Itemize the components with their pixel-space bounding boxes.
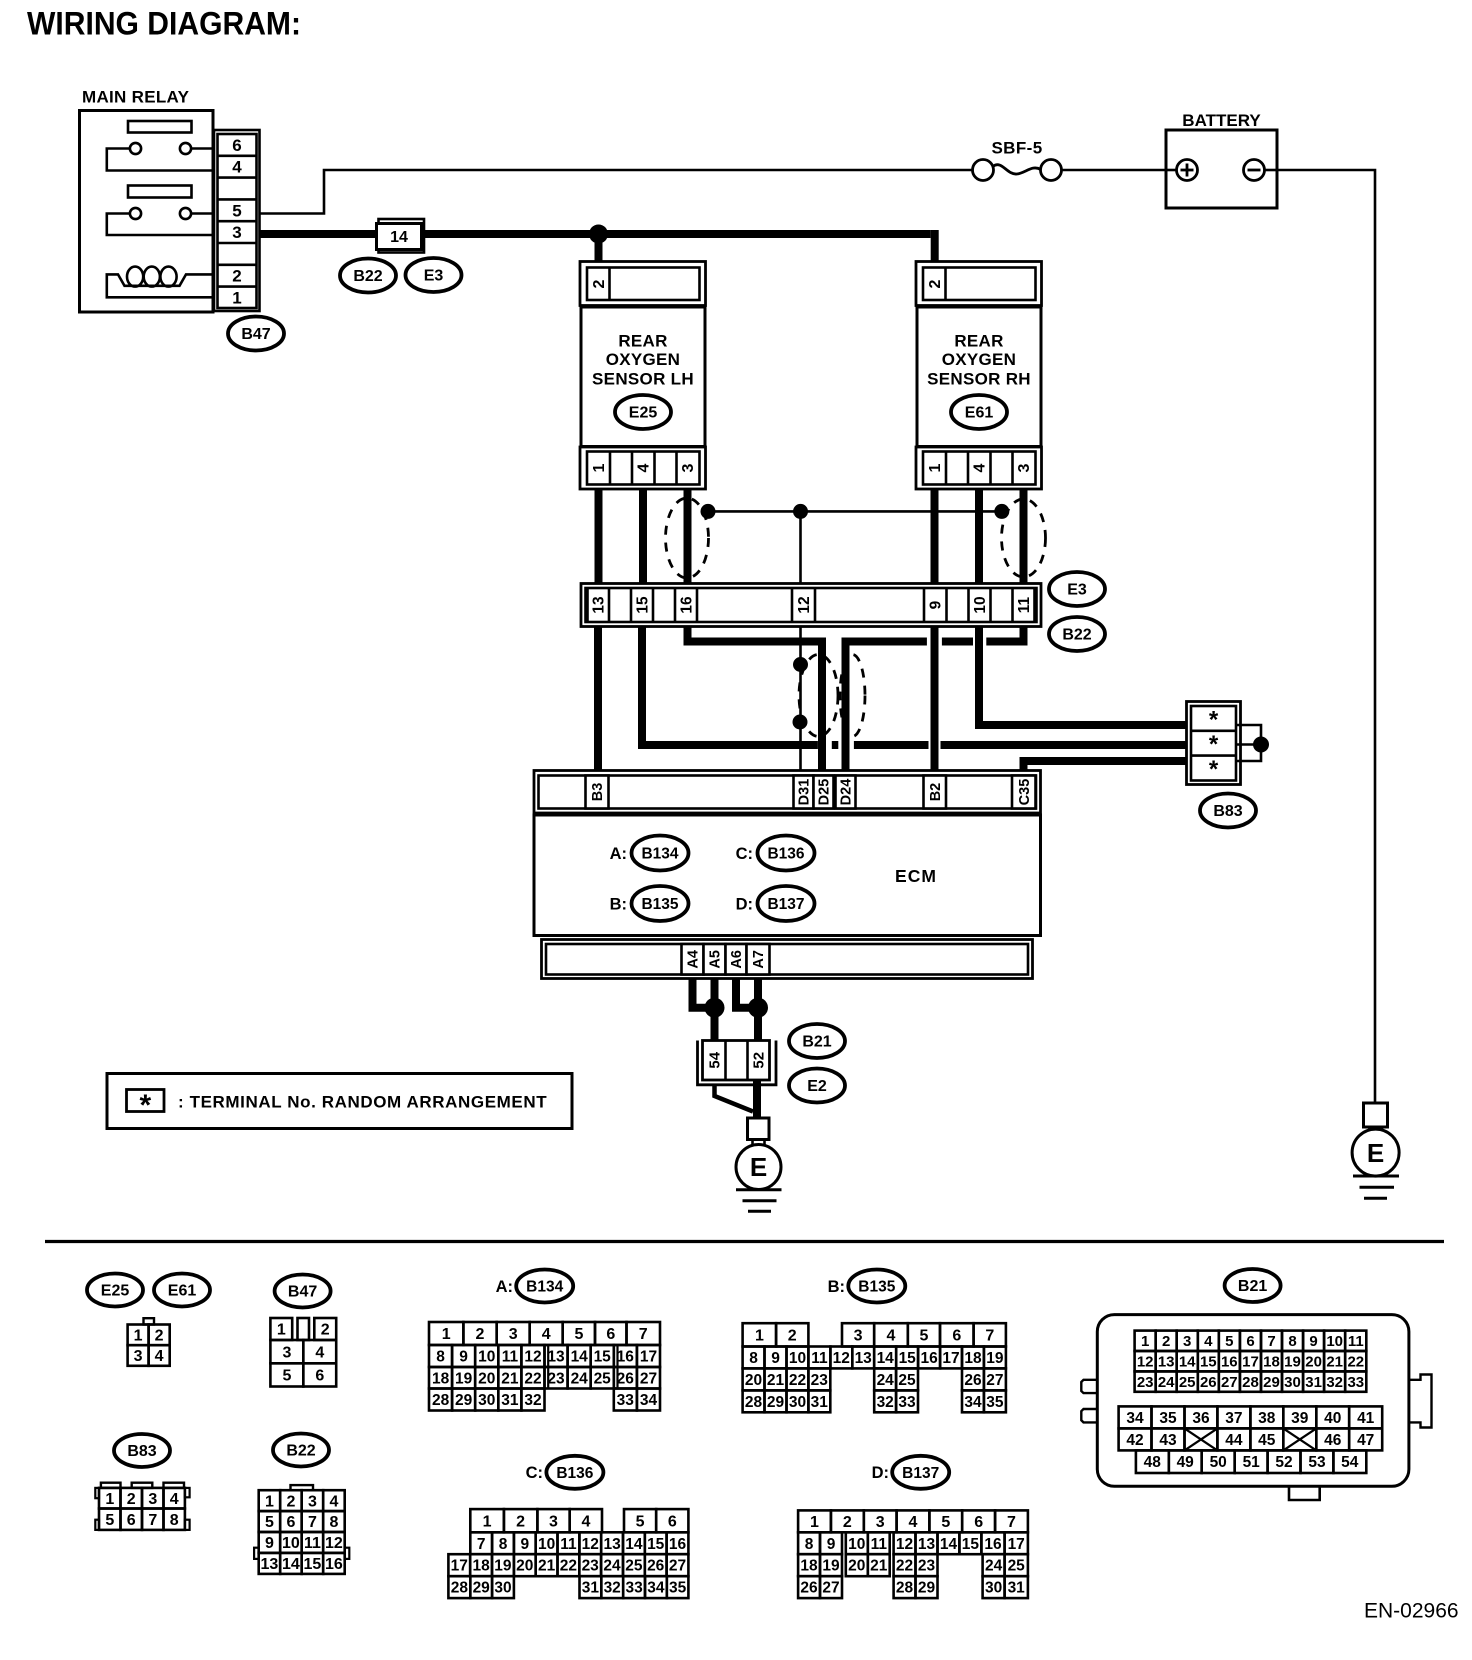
- svg-text:19: 19: [822, 1558, 840, 1575]
- svg-text:38: 38: [1258, 1410, 1276, 1427]
- main relay box: [80, 111, 214, 313]
- svg-text:27: 27: [986, 1372, 1003, 1389]
- svg-text:12: 12: [325, 1535, 343, 1552]
- svg-text:3: 3: [1016, 463, 1033, 472]
- svg-text:19: 19: [1284, 1354, 1301, 1371]
- svg-text:SBF-5: SBF-5: [991, 139, 1042, 158]
- svg-text:28: 28: [432, 1392, 450, 1409]
- svg-text:34: 34: [1126, 1410, 1144, 1427]
- svg-text:4: 4: [155, 1348, 164, 1365]
- svg-text:25: 25: [898, 1372, 916, 1389]
- svg-text:18: 18: [800, 1558, 818, 1575]
- oval E3 (near 14): [406, 258, 462, 292]
- svg-text:8: 8: [805, 1536, 814, 1553]
- svg-text:35: 35: [669, 1580, 687, 1597]
- svg-text:3: 3: [680, 463, 697, 472]
- ground E (right): [1352, 1127, 1399, 1198]
- svg-text:25: 25: [1008, 1558, 1026, 1575]
- svg-text:31: 31: [582, 1580, 600, 1597]
- ECM bottom connector strip (A4,A5,A6,A7): [542, 940, 1033, 979]
- svg-text:3: 3: [282, 1344, 291, 1361]
- svg-text:B83: B83: [1213, 803, 1242, 820]
- wire: sensor LH pin 1 to connector pin 13: [595, 489, 603, 584]
- svg-text:B2: B2: [928, 783, 944, 802]
- svg-text:2: 2: [516, 1513, 525, 1530]
- svg-text:14: 14: [1179, 1354, 1196, 1371]
- wire: sensor RH pin 1 to connector pin 9: [931, 489, 939, 584]
- svg-text:28: 28: [896, 1580, 914, 1597]
- svg-text:8: 8: [499, 1536, 508, 1553]
- svg-text:E25: E25: [101, 1283, 130, 1300]
- ECM connector ovals A:B134 C:B136 B:B135 D:B137: [610, 836, 689, 871]
- svg-text:30: 30: [985, 1580, 1002, 1597]
- svg-text:29: 29: [1263, 1374, 1280, 1391]
- svg-text:24: 24: [877, 1372, 895, 1389]
- svg-text:31: 31: [811, 1394, 829, 1411]
- svg-text:14: 14: [625, 1536, 643, 1553]
- svg-text:2: 2: [1162, 1333, 1170, 1350]
- svg-text:E: E: [1367, 1138, 1384, 1168]
- svg-text:11: 11: [871, 1536, 888, 1553]
- svg-text:54: 54: [1341, 1454, 1359, 1471]
- svg-text:1: 1: [232, 288, 241, 307]
- svg-text:1: 1: [927, 463, 944, 472]
- connector B21 pin grid 48-54: [1136, 1450, 1366, 1473]
- svg-text:2: 2: [127, 1491, 136, 1508]
- svg-text:1: 1: [442, 1326, 451, 1343]
- svg-text:B135: B135: [858, 1279, 895, 1296]
- wire: ECM C35 to B83 bottom pin: [1024, 761, 1192, 771]
- svg-text:7: 7: [1007, 1514, 1016, 1531]
- svg-text:6: 6: [286, 1514, 295, 1531]
- svg-text:2: 2: [788, 1328, 797, 1345]
- svg-text:D31: D31: [797, 779, 813, 806]
- svg-text:4: 4: [542, 1326, 551, 1343]
- svg-text:D25: D25: [817, 779, 833, 806]
- connector B137 pinout: [798, 1510, 1028, 1598]
- svg-text:B47: B47: [241, 326, 270, 343]
- wire: B83 pins commoned (right bracket with node): [1236, 725, 1269, 761]
- svg-text:B22: B22: [1062, 627, 1091, 644]
- svg-text:C:: C:: [526, 1464, 543, 1482]
- svg-text:3: 3: [308, 1493, 317, 1510]
- svg-text:8: 8: [749, 1350, 758, 1367]
- svg-text:*: *: [1209, 731, 1219, 758]
- svg-text:2: 2: [286, 1493, 295, 1510]
- svg-text:14: 14: [940, 1536, 958, 1553]
- svg-text:A:: A:: [610, 845, 627, 863]
- svg-text:19: 19: [494, 1558, 512, 1575]
- svg-text:23: 23: [582, 1558, 600, 1575]
- svg-text:11: 11: [560, 1536, 577, 1553]
- label A: and oval B134 (pinout): [496, 1270, 574, 1303]
- svg-text:5: 5: [919, 1328, 928, 1345]
- wire: sensor RH pin 4 to connector pin 10: [975, 489, 983, 584]
- svg-text:B21: B21: [1238, 1278, 1267, 1295]
- svg-text:30: 30: [478, 1392, 495, 1409]
- svg-text:D:: D:: [736, 895, 753, 913]
- svg-text:26: 26: [800, 1580, 818, 1597]
- svg-text:13: 13: [855, 1350, 873, 1367]
- svg-text:20: 20: [516, 1558, 533, 1575]
- svg-text:27: 27: [1221, 1374, 1238, 1391]
- svg-text:31: 31: [1305, 1374, 1322, 1391]
- svg-text:6: 6: [1246, 1333, 1254, 1350]
- svg-text:20: 20: [478, 1370, 495, 1387]
- svg-text:18: 18: [432, 1370, 450, 1387]
- svg-text:ECM: ECM: [895, 866, 937, 886]
- svg-text:19: 19: [455, 1370, 473, 1387]
- svg-text:7: 7: [308, 1514, 317, 1531]
- svg-text:11: 11: [1348, 1333, 1364, 1350]
- svg-text:6: 6: [668, 1513, 677, 1530]
- svg-text:43: 43: [1159, 1432, 1177, 1449]
- connector strip E3/B22 (pins 13,15,16,12,9,10,11): [581, 584, 1041, 627]
- wire: 54 to ground terminal (diagonal): [715, 1085, 754, 1112]
- svg-text:10: 10: [1326, 1333, 1343, 1350]
- svg-text:4: 4: [887, 1328, 896, 1345]
- svg-text:REAR: REAR: [954, 331, 1003, 350]
- svg-text:15: 15: [899, 1350, 917, 1367]
- svg-text:E3: E3: [424, 268, 444, 285]
- relay switch 2 contacts: [107, 208, 213, 235]
- svg-text:10: 10: [478, 1349, 495, 1366]
- connector B21 pin grid 34-47: [1119, 1406, 1383, 1450]
- svg-text:15: 15: [304, 1556, 322, 1573]
- svg-text:E3: E3: [1067, 582, 1087, 599]
- wire: pin 11 to ECM D24: [846, 627, 1024, 771]
- connector B21 pin grid 1-33: [1135, 1331, 1367, 1392]
- svg-text:31: 31: [501, 1392, 519, 1409]
- svg-text:32: 32: [877, 1394, 894, 1411]
- svg-text:29: 29: [455, 1392, 473, 1409]
- svg-text:13: 13: [591, 596, 608, 614]
- svg-text:5: 5: [1225, 1333, 1233, 1350]
- svg-text:10: 10: [972, 596, 989, 613]
- svg-text:1: 1: [265, 1493, 274, 1510]
- svg-text:44: 44: [1225, 1432, 1243, 1449]
- svg-text:16: 16: [679, 596, 696, 614]
- svg-text:15: 15: [962, 1536, 980, 1553]
- svg-text:B47: B47: [288, 1284, 317, 1301]
- oval E61 (pinout): [154, 1274, 210, 1307]
- svg-text:34: 34: [964, 1394, 982, 1411]
- svg-text:30: 30: [494, 1580, 511, 1597]
- svg-text:9: 9: [520, 1536, 529, 1553]
- svg-text:4: 4: [329, 1493, 338, 1510]
- svg-text:28: 28: [745, 1394, 763, 1411]
- oval B22 (strip): [1049, 617, 1105, 651]
- svg-text:16: 16: [669, 1536, 687, 1553]
- oval B22 (pinout): [273, 1434, 329, 1467]
- connector B83 (3 pins *): [1187, 702, 1241, 785]
- junction node at sensor LH feed: [589, 225, 608, 244]
- connector 14 (in power wire): [377, 219, 425, 253]
- connector B135 pinout: [743, 1323, 1006, 1412]
- wire: pin 15 to B83 middle pin: [642, 627, 1191, 745]
- svg-text:26: 26: [647, 1558, 665, 1575]
- svg-text:11: 11: [1016, 596, 1033, 613]
- svg-text:27: 27: [640, 1370, 657, 1387]
- svg-text:REAR: REAR: [618, 331, 667, 350]
- wire: fuse to battery: [1062, 169, 1167, 172]
- svg-text:13: 13: [918, 1536, 936, 1553]
- ground E (left): [736, 1140, 782, 1212]
- svg-text:5: 5: [282, 1368, 291, 1385]
- svg-text:29: 29: [918, 1580, 936, 1597]
- svg-text:9: 9: [459, 1349, 468, 1366]
- svg-text:B137: B137: [902, 1465, 939, 1482]
- svg-text:12: 12: [796, 596, 813, 613]
- connector B47 pinout: [270, 1318, 336, 1387]
- svg-text:6: 6: [952, 1328, 961, 1345]
- battery: [1166, 111, 1277, 208]
- svg-text:5: 5: [574, 1326, 583, 1343]
- svg-text:WIRING DIAGRAM:: WIRING DIAGRAM:: [27, 6, 301, 42]
- svg-text:1: 1: [1141, 1333, 1149, 1350]
- svg-text:16: 16: [325, 1556, 343, 1573]
- svg-text:E61: E61: [168, 1283, 197, 1300]
- wire: sensor LH pin 4 to connector pin 15: [639, 489, 647, 584]
- svg-text:*: *: [1209, 706, 1219, 733]
- svg-text:23: 23: [547, 1370, 565, 1387]
- svg-text:15: 15: [1200, 1354, 1217, 1371]
- svg-text:12: 12: [524, 1349, 541, 1366]
- svg-text:19: 19: [986, 1350, 1004, 1367]
- svg-text:16: 16: [1221, 1354, 1238, 1371]
- oval B83 (pinout): [114, 1434, 170, 1467]
- svg-text:EN-02966: EN-02966: [1364, 1600, 1459, 1623]
- svg-text:17: 17: [451, 1558, 468, 1575]
- svg-text:33: 33: [625, 1580, 643, 1597]
- svg-text:45: 45: [1258, 1432, 1276, 1449]
- svg-text:5: 5: [636, 1513, 645, 1530]
- svg-text:7: 7: [477, 1536, 486, 1553]
- ECM body: [534, 815, 1041, 936]
- svg-text:14: 14: [571, 1349, 589, 1366]
- svg-text:13: 13: [261, 1556, 279, 1573]
- svg-text:C35: C35: [1017, 779, 1033, 806]
- oval B22 (near 14): [340, 259, 396, 293]
- svg-text:21: 21: [767, 1372, 785, 1389]
- svg-text:7: 7: [639, 1326, 648, 1343]
- relay contact bar 1: [128, 121, 192, 133]
- svg-text:5: 5: [265, 1514, 274, 1531]
- svg-text:17: 17: [1242, 1354, 1259, 1371]
- wire: relay pin 5 to fuse SBF-5: [260, 170, 973, 214]
- svg-text:*: *: [1209, 756, 1219, 783]
- connector 54/52: [698, 1041, 777, 1085]
- oval E25 (pinout): [87, 1274, 143, 1307]
- svg-text:7: 7: [1267, 1333, 1275, 1350]
- connector B134 pinout: [429, 1322, 660, 1411]
- svg-text:21: 21: [1326, 1354, 1343, 1371]
- svg-text:35: 35: [986, 1394, 1004, 1411]
- title: WIRING DIAGRAM: [27, 6, 301, 42]
- svg-text:23: 23: [918, 1558, 936, 1575]
- main relay label: [82, 88, 190, 107]
- svg-text:SENSOR LH: SENSOR LH: [592, 369, 694, 388]
- svg-text:2: 2: [155, 1328, 164, 1345]
- svg-text:10: 10: [282, 1535, 300, 1552]
- svg-text:4: 4: [315, 1344, 324, 1361]
- svg-text:B134: B134: [641, 846, 678, 863]
- svg-text:: TERMINAL No. RANDOM ARRANGEM: : TERMINAL No. RANDOM ARRANGEMENT: [178, 1093, 547, 1112]
- svg-text:3: 3: [549, 1513, 558, 1530]
- svg-text:50: 50: [1210, 1454, 1227, 1471]
- shield symbol around sensor LH pin 3 wire: [666, 498, 709, 578]
- oval B47: [228, 317, 284, 351]
- svg-text:3: 3: [232, 223, 241, 242]
- fuse SBF-5: [973, 139, 1062, 181]
- svg-text:B3: B3: [590, 783, 606, 802]
- wire: pin 10 to B83 top pin: [979, 627, 1191, 725]
- svg-text:4: 4: [170, 1491, 179, 1508]
- svg-text:48: 48: [1144, 1454, 1162, 1471]
- svg-text:21: 21: [870, 1558, 888, 1575]
- ground terminal box (left): [748, 1118, 770, 1140]
- shield symbol around D24 wire: [840, 655, 865, 737]
- relay switch 1 contacts: [107, 143, 213, 171]
- svg-text:11: 11: [502, 1349, 519, 1366]
- svg-text:6: 6: [315, 1368, 324, 1385]
- label D: and oval B137 (pinout): [872, 1456, 950, 1489]
- svg-text:15: 15: [594, 1349, 612, 1366]
- svg-text:*: *: [139, 1089, 151, 1122]
- svg-text:32: 32: [604, 1580, 621, 1597]
- svg-text:A4: A4: [686, 950, 702, 969]
- svg-text:9: 9: [928, 600, 945, 609]
- svg-text:8: 8: [436, 1349, 445, 1366]
- svg-text:22: 22: [524, 1370, 541, 1387]
- connector B22 pinout: [254, 1485, 349, 1574]
- svg-text:33: 33: [898, 1394, 916, 1411]
- svg-text:42: 42: [1126, 1432, 1143, 1449]
- svg-text:22: 22: [1347, 1354, 1364, 1371]
- svg-text:52: 52: [751, 1052, 768, 1069]
- svg-text:E25: E25: [629, 405, 658, 422]
- svg-text:4: 4: [232, 158, 242, 177]
- svg-text:53: 53: [1308, 1454, 1326, 1471]
- svg-text:15: 15: [635, 596, 652, 614]
- svg-text:7: 7: [985, 1328, 994, 1345]
- svg-text:B22: B22: [353, 268, 382, 285]
- svg-text:9: 9: [265, 1535, 274, 1552]
- svg-text:8: 8: [329, 1514, 338, 1531]
- wire: battery to right ground E: [1277, 170, 1375, 1103]
- svg-text:23: 23: [1137, 1374, 1154, 1391]
- svg-text:B83: B83: [127, 1443, 156, 1460]
- svg-text:3: 3: [509, 1326, 518, 1343]
- svg-text:D:: D:: [872, 1464, 889, 1482]
- svg-text:47: 47: [1357, 1432, 1374, 1449]
- svg-text:13: 13: [547, 1349, 565, 1366]
- svg-text:1: 1: [591, 463, 608, 472]
- svg-text:4: 4: [972, 463, 989, 472]
- svg-text:11: 11: [304, 1535, 321, 1552]
- connector B21 pinout housing: [1081, 1315, 1431, 1500]
- svg-text:5: 5: [941, 1514, 950, 1531]
- svg-text:B134: B134: [526, 1279, 563, 1296]
- svg-text:OXYGEN: OXYGEN: [606, 350, 681, 369]
- svg-text:1: 1: [277, 1322, 286, 1339]
- wire: relay pin 3 to oxygen sensors (thick power wire): [260, 230, 935, 262]
- svg-text:25: 25: [594, 1370, 612, 1387]
- svg-text:6: 6: [974, 1514, 983, 1531]
- svg-text:16: 16: [617, 1349, 635, 1366]
- svg-text:1: 1: [134, 1328, 143, 1345]
- svg-text:A6: A6: [729, 950, 745, 969]
- wire: pin 16 to ECM D25: [688, 627, 823, 771]
- svg-text:8: 8: [170, 1512, 179, 1529]
- svg-text:1: 1: [810, 1514, 819, 1531]
- svg-text:31: 31: [1008, 1580, 1026, 1597]
- svg-text:40: 40: [1324, 1410, 1341, 1427]
- svg-text:25: 25: [1179, 1374, 1196, 1391]
- connector B83 pinout: [95, 1483, 189, 1530]
- svg-text:OXYGEN: OXYGEN: [942, 350, 1017, 369]
- svg-text:14: 14: [390, 229, 408, 246]
- wire: ECM A6+A7 to terminal 52: [736, 979, 768, 1041]
- svg-text:B:: B:: [828, 1278, 845, 1296]
- svg-text:8: 8: [1288, 1333, 1296, 1350]
- svg-text:A7: A7: [751, 950, 767, 969]
- svg-text:4: 4: [581, 1513, 590, 1530]
- svg-text:35: 35: [1159, 1410, 1177, 1427]
- svg-text:34: 34: [640, 1392, 658, 1409]
- svg-text:20: 20: [745, 1372, 762, 1389]
- svg-text:B136: B136: [556, 1465, 593, 1482]
- svg-text:7: 7: [148, 1512, 157, 1529]
- oval E2 (near 54/52): [789, 1069, 845, 1103]
- svg-text:2: 2: [591, 279, 608, 288]
- oval E3 (strip): [1049, 572, 1105, 606]
- figure number EN-02966: [1364, 1600, 1459, 1623]
- svg-text:E: E: [750, 1152, 767, 1182]
- svg-text:B21: B21: [802, 1034, 831, 1051]
- oval B83: [1200, 794, 1256, 828]
- svg-text:23: 23: [811, 1372, 829, 1389]
- wire: shield tie (LH shield to RH shield with tap to pin 12): [701, 504, 1010, 584]
- svg-text:21: 21: [501, 1370, 519, 1387]
- svg-text:28: 28: [1242, 1374, 1259, 1391]
- rear oxygen sensor RH (E61): [916, 262, 1042, 490]
- svg-text:36: 36: [1192, 1410, 1210, 1427]
- wire: pin 12 to ECM D31 (shield drain): [793, 627, 809, 771]
- svg-text:16: 16: [920, 1350, 938, 1367]
- svg-text:9: 9: [827, 1536, 836, 1553]
- ground terminal box (right): [1364, 1103, 1388, 1127]
- svg-text:B:: B:: [610, 895, 627, 913]
- svg-text:30: 30: [789, 1394, 806, 1411]
- relay contact bar 2: [128, 186, 192, 198]
- shield symbol around sensor RH pin 3 wire: [1002, 499, 1046, 577]
- svg-text:A:: A:: [496, 1278, 513, 1296]
- svg-text:20: 20: [1305, 1354, 1322, 1371]
- svg-text:28: 28: [451, 1580, 469, 1597]
- svg-text:6: 6: [232, 136, 241, 155]
- rear oxygen sensor LH (E25): [580, 262, 706, 490]
- svg-text:27: 27: [822, 1580, 839, 1597]
- relay coil: [107, 267, 213, 298]
- svg-text:10: 10: [789, 1350, 806, 1367]
- svg-text:3: 3: [876, 1514, 885, 1531]
- svg-text:2: 2: [843, 1514, 852, 1531]
- svg-text:5: 5: [105, 1512, 114, 1529]
- svg-text:46: 46: [1324, 1432, 1342, 1449]
- svg-text:52: 52: [1275, 1454, 1292, 1471]
- svg-text:34: 34: [647, 1580, 665, 1597]
